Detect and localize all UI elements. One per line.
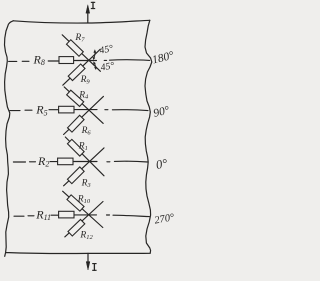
wire right torn edge xyxy=(145,20,152,253)
svg-text:0°: 0° xyxy=(155,156,169,172)
resistor R5 xyxy=(59,106,74,113)
wire bottom current lead xyxy=(87,253,89,262)
wire row2 resistor to junction xyxy=(74,109,97,111)
node bottom arrowhead I xyxy=(86,262,90,270)
wire row4 label to resistor R11 xyxy=(51,214,59,216)
node row1 junction angle arc lower 45 xyxy=(94,63,96,69)
resistor R10 xyxy=(67,195,84,211)
wire row4 centerline right dashes xyxy=(107,215,150,217)
wire row3 diagonal R1 branch xyxy=(65,137,104,176)
resistor R9 xyxy=(68,64,85,81)
wire row3 centerline left dashes xyxy=(13,161,35,163)
wire row4 diagonal R10 branch xyxy=(63,191,103,227)
wire row3 centerline right dashes xyxy=(107,160,148,163)
wire row3 diagonal R3 branch xyxy=(64,148,104,186)
wire row2 diagonal R6 branch xyxy=(64,96,104,134)
wire row4 resistor to junction xyxy=(74,214,97,216)
wire left torn edge xyxy=(5,21,14,253)
wire row1 label to resistor R8 xyxy=(48,60,59,62)
wire row3 resistor to junction xyxy=(73,161,97,163)
wire row4 diagonal R12 branch xyxy=(65,202,103,237)
resistor R2 xyxy=(58,158,73,165)
resistor R6 xyxy=(68,115,85,132)
wire row3 label to resistor R2 xyxy=(50,161,58,163)
wire row1 centerline right dashes xyxy=(104,59,149,62)
wire row1 centerline left dashes xyxy=(9,60,29,62)
resistor R3 xyxy=(67,167,84,184)
wire row2 centerline left dashes xyxy=(10,109,32,111)
wire row2 label to resistor R5 xyxy=(49,109,59,111)
resistor R7 xyxy=(66,40,83,57)
resistor R4 xyxy=(67,90,84,106)
node row1 junction angle arc upper 45 xyxy=(94,51,95,59)
svg-text:45°: 45° xyxy=(100,60,115,73)
wire top edge of strip xyxy=(13,20,150,23)
wire top current lead xyxy=(87,11,89,23)
wire row1 resistor to junction xyxy=(73,60,96,62)
wire row1 diagonal R7 branch xyxy=(62,35,100,72)
resistor R11 xyxy=(59,211,74,218)
resistor R1 xyxy=(67,139,84,156)
node I label top xyxy=(91,2,95,9)
wire row2 diagonal R4 branch xyxy=(64,87,103,124)
wire row1 diagonal R9 branch xyxy=(63,49,101,85)
resistor R12 xyxy=(68,219,85,236)
node I label bottom xyxy=(92,263,96,271)
resistor R8 xyxy=(59,57,74,64)
wire row2 centerline right dashes xyxy=(105,109,148,112)
wire row4 centerline left dashes xyxy=(14,215,34,217)
wire bottom edge of strip xyxy=(5,253,151,257)
node top arrowhead I xyxy=(86,5,90,13)
